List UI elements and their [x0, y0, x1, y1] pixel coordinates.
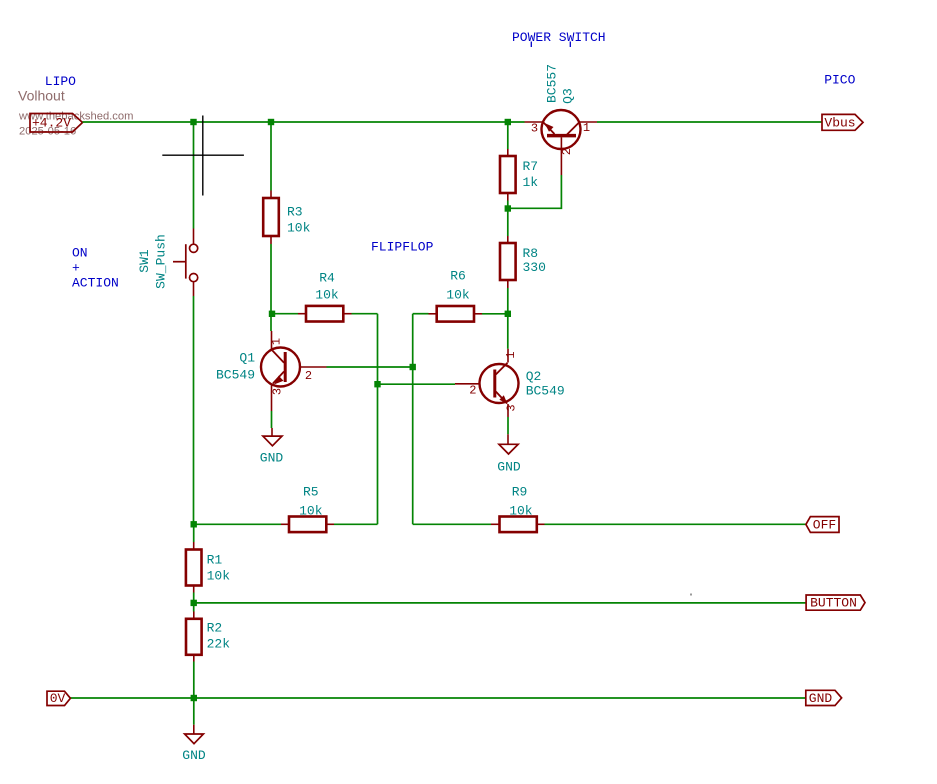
comment www.thebackshed.com: [18, 110, 133, 122]
svg-text:10k: 10k: [287, 221, 311, 236]
ground under Q2: [499, 434, 518, 454]
svg-text:+4.2V: +4.2V: [32, 116, 71, 131]
svg-text:10k: 10k: [207, 569, 231, 584]
cursor crosshair: [162, 116, 244, 196]
wire R5 to vertical A: [334, 523, 378, 525]
junction at 508,122: [505, 119, 511, 125]
svg-text:Q3: Q3: [561, 88, 576, 104]
svg-text:R3: R3: [287, 205, 303, 220]
ground under Q1: [263, 428, 282, 446]
wire vertical B top to R6: [413, 313, 429, 315]
wire node to R1: [193, 524, 195, 542]
wire junction507 to R7: [507, 122, 509, 149]
svg-text:GND: GND: [260, 451, 284, 466]
wire top rail right (Q3 collector to Vbus): [597, 121, 822, 123]
wire Q2 emitter to GND: [507, 417, 509, 434]
svg-text:R7: R7: [523, 159, 539, 174]
svg-text:330: 330: [523, 260, 546, 275]
resistor R2: [186, 612, 202, 662]
svg-text:2: 2: [560, 148, 574, 155]
wire Q1 emitter to GND: [271, 411, 273, 428]
wire vertical A down to R5: [377, 314, 379, 525]
transistor Q3: [525, 110, 598, 175]
resistor R6: [429, 306, 483, 322]
svg-text:BC549: BC549: [216, 368, 255, 383]
svg-text:SW_Push: SW_Push: [153, 234, 168, 289]
switch SW1: [173, 229, 198, 297]
svg-text:R2: R2: [207, 621, 223, 636]
svg-text:10k: 10k: [315, 288, 339, 303]
wire Q1 base to junction B: [327, 366, 413, 368]
wire junction193 to SW1: [193, 122, 195, 229]
junction at 194,524: [191, 521, 197, 527]
comment 2025-05-16: [19, 126, 76, 138]
junction at 194,603: [191, 600, 197, 606]
wire bottom node to R5: [194, 523, 281, 525]
note POWER SWITCH: [512, 30, 606, 47]
svg-text:R5: R5: [303, 485, 319, 500]
svg-text:OFF: OFF: [813, 517, 836, 532]
wire bottom node to GND symbol: [193, 698, 195, 725]
svg-text:3: 3: [505, 404, 519, 411]
svg-text:Q2: Q2: [526, 369, 542, 384]
svg-text:0V: 0V: [50, 691, 66, 706]
svg-text:1k: 1k: [523, 175, 539, 190]
wire R2 to bottom rail: [193, 662, 195, 699]
note ON + ACTION: [72, 246, 119, 291]
svg-text:Vbus: Vbus: [824, 115, 855, 130]
wire R1 to R2: [193, 593, 195, 612]
svg-text:R1: R1: [207, 553, 223, 568]
wire R4 to vertical A: [352, 313, 378, 315]
svg-text:SW1: SW1: [137, 249, 152, 273]
hier label Vbus: [822, 114, 863, 130]
svg-text:10k: 10k: [446, 288, 470, 303]
wire R8 to Q2 collector: [507, 288, 509, 349]
note FLIPFLOP: [371, 239, 434, 254]
wire Q3 base down: [508, 175, 562, 208]
wire node271 to R4: [271, 313, 298, 315]
wire R7 to R8: [507, 201, 509, 237]
svg-text:POWER SWITCH: POWER SWITCH: [512, 30, 606, 45]
junction at 194,698: [191, 695, 197, 701]
junction at 271,122: [268, 119, 274, 125]
svg-text:GND: GND: [497, 460, 521, 475]
wire vertical B to R9: [413, 523, 491, 525]
svg-text:BUTTON: BUTTON: [810, 596, 857, 611]
svg-text:10k: 10k: [509, 504, 533, 519]
svg-text:R9: R9: [512, 484, 528, 499]
junction at 193,122: [190, 119, 196, 125]
svg-text:Q1: Q1: [239, 351, 255, 366]
svg-text:PICO: PICO: [824, 73, 855, 88]
svg-text:GND: GND: [182, 748, 206, 763]
wire junction A to Q2 base: [378, 383, 456, 385]
junction at 272,314: [269, 311, 275, 317]
svg-text:FLIPFLOP: FLIPFLOP: [371, 239, 434, 254]
svg-text:R8: R8: [523, 246, 539, 261]
wire BUTTON: [194, 602, 806, 604]
svg-text:ON: ON: [72, 246, 88, 261]
wire R3 to Q1 collector: [270, 244, 272, 331]
wire bottom rail 0V to GND: [70, 697, 806, 699]
svg-text:3: 3: [271, 388, 285, 395]
svg-text:22k: 22k: [207, 637, 231, 652]
svg-text:10k: 10k: [299, 504, 323, 519]
svg-text:2: 2: [469, 383, 476, 397]
svg-text:1: 1: [504, 351, 518, 358]
note LIPO: [45, 74, 76, 89]
wire junction271 to R3: [270, 122, 272, 191]
resistor R3: [263, 191, 279, 245]
wire top rail left: [83, 121, 525, 123]
svg-text:3: 3: [531, 122, 538, 136]
svg-text:2: 2: [305, 369, 312, 383]
hier label 0V: [47, 691, 70, 706]
svg-text:1: 1: [583, 121, 590, 135]
hier label GND: [806, 690, 842, 706]
svg-text:Volhout: Volhout: [18, 88, 65, 104]
wire SW1 to bottom node: [193, 296, 195, 524]
resistor R7: [500, 149, 516, 201]
resistor R4: [298, 306, 352, 322]
power label +4.2V: [30, 114, 83, 133]
svg-text:1: 1: [269, 338, 283, 345]
svg-text:BC549: BC549: [526, 384, 565, 399]
hier label OFF: [806, 517, 839, 533]
note PICO: [824, 73, 855, 88]
resistor R9: [491, 517, 545, 533]
svg-text:BC557: BC557: [545, 64, 560, 103]
ground bottom: [185, 725, 204, 744]
hier label BUTTON: [806, 595, 865, 611]
junction at 508,314: [505, 311, 511, 317]
svg-text:+: +: [72, 261, 80, 276]
svg-text:R6: R6: [450, 269, 466, 284]
junction at 508,208: [505, 205, 511, 211]
wire R9 to OFF: [545, 523, 806, 525]
svg-text:GND: GND: [809, 691, 833, 706]
wire vertical B down to R9: [412, 314, 414, 525]
resistor R8: [500, 236, 516, 288]
svg-text:R4: R4: [319, 271, 335, 286]
transistor Q2: [455, 349, 519, 417]
resistor R1: [186, 542, 202, 593]
svg-text:ACTION: ACTION: [72, 276, 119, 291]
comment Volhout: [18, 88, 65, 104]
wire R6 to node507: [482, 313, 508, 315]
transistor Q1: [261, 331, 327, 411]
stray dot: [690, 594, 692, 596]
junction at 377,384: [374, 381, 380, 387]
junction at 413,367: [410, 364, 416, 370]
resistor R5: [281, 517, 334, 533]
